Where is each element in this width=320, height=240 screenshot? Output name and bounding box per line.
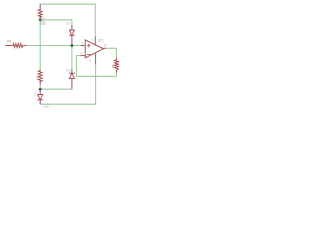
svg-text:IC1: IC1	[98, 38, 104, 42]
svg-text:6: 6	[104, 43, 106, 47]
svg-text:R4: R4	[35, 75, 39, 79]
svg-text:Z1: Z1	[34, 92, 38, 96]
svg-text:4: 4	[89, 60, 91, 64]
svg-text:GND: GND	[42, 105, 50, 109]
svg-text:2: 2	[81, 51, 83, 55]
svg-text:D1: D1	[66, 22, 70, 26]
svg-text:R3: R3	[7, 40, 11, 44]
svg-text:R6: R6	[111, 64, 115, 68]
svg-text:3: 3	[81, 41, 83, 45]
svg-text:D2: D2	[66, 69, 70, 73]
svg-text:7: 7	[91, 39, 93, 43]
